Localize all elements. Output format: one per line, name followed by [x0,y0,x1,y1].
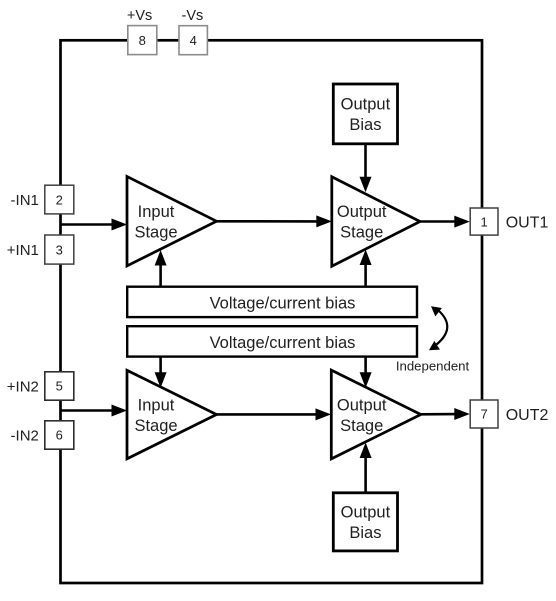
svg-text:-IN1: -IN1 [11,192,39,209]
svg-text:Stage: Stage [134,417,177,435]
svg-text:8: 8 [139,33,146,48]
svg-text:Input: Input [138,203,175,221]
svg-text:3: 3 [56,242,63,257]
svg-text:-Vs: -Vs [182,8,204,24]
svg-text:Output: Output [337,203,387,221]
svg-text:Stage: Stage [340,223,383,241]
svg-text:Stage: Stage [134,223,177,241]
svg-text:Stage: Stage [340,417,383,435]
svg-text:4: 4 [190,33,197,48]
svg-text:Output: Output [341,504,391,522]
svg-text:Voltage/current bias: Voltage/current bias [210,295,356,313]
svg-text:2: 2 [56,192,63,207]
svg-text:Output: Output [341,96,391,114]
svg-text:Bias: Bias [349,524,381,542]
svg-text:6: 6 [56,428,63,443]
svg-text:1: 1 [480,214,487,229]
svg-text:OUT1: OUT1 [506,215,549,232]
svg-text:OUT2: OUT2 [506,407,549,424]
svg-text:Voltage/current bias: Voltage/current bias [210,334,356,352]
svg-text:Input: Input [138,396,175,414]
svg-text:+Vs: +Vs [127,8,152,24]
svg-text:Output: Output [337,396,387,414]
svg-text:+IN2: +IN2 [7,379,39,396]
svg-text:Independent: Independent [396,359,470,374]
svg-text:7: 7 [480,407,487,422]
svg-text:+IN1: +IN1 [7,242,39,259]
svg-text:-IN2: -IN2 [11,428,39,445]
svg-text:Bias: Bias [349,116,381,134]
svg-text:5: 5 [56,379,63,394]
